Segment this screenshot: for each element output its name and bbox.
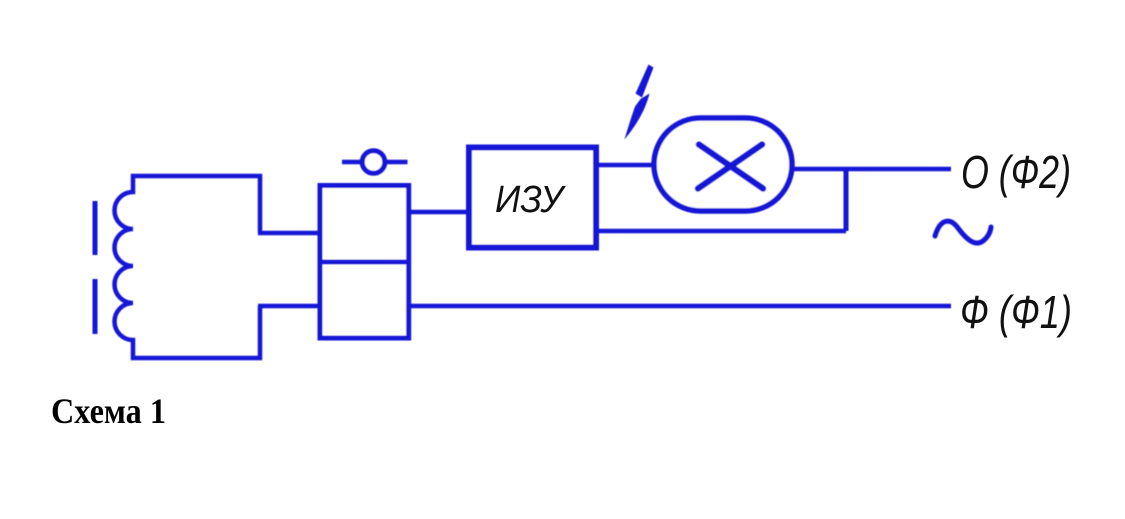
inductor L1 (ballast winding outline) bbox=[115, 176, 261, 358]
lamp EL1 (stadium outline) bbox=[654, 118, 792, 211]
ballast core (dashed line) bbox=[93, 201, 98, 334]
svg-text:Схема 1: Схема 1 bbox=[51, 391, 166, 431]
wire bypass vertical bbox=[844, 167, 849, 231]
AC source symbol (~) bbox=[935, 221, 991, 243]
svg-text:Ф (Ф1): Ф (Ф1) bbox=[960, 286, 1072, 338]
ignitor box U1 (ИЗУ) bbox=[469, 148, 596, 248]
wire ignitor bypass (bottom) bbox=[596, 229, 846, 234]
terminal block divider bbox=[320, 260, 409, 265]
svg-text:О (Ф2): О (Ф2) bbox=[961, 146, 1071, 198]
switch circle bbox=[362, 151, 385, 174]
terminal block X1 bbox=[320, 186, 409, 339]
wire bottom phase line to label bbox=[258, 304, 951, 309]
lamp X mark bbox=[698, 145, 763, 189]
wire ignitor to lamp bbox=[596, 163, 655, 168]
wire block to ignitor bbox=[409, 210, 469, 215]
svg-text:ИЗУ: ИЗУ bbox=[495, 179, 566, 221]
lightning bolt (ignition pulse) bbox=[625, 65, 654, 140]
wire lamp to O terminal bbox=[792, 167, 951, 172]
wire coil to terminal block (top) bbox=[258, 231, 320, 236]
switch line above block bbox=[342, 160, 408, 165]
